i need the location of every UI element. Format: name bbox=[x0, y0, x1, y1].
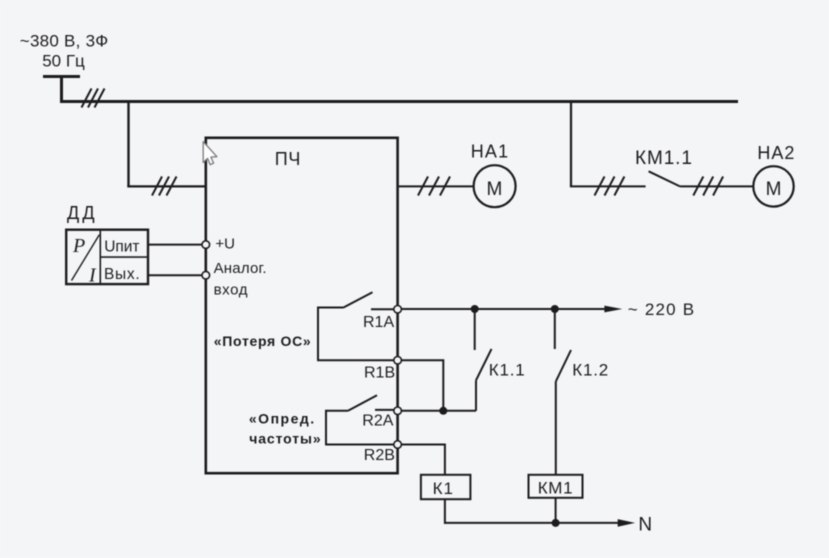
terminal circle Аналог. вход bbox=[202, 271, 210, 279]
svg-text:М: М bbox=[766, 179, 782, 200]
svg-text:К1: К1 bbox=[433, 479, 454, 498]
relay contact R2 bottom wire bbox=[325, 444, 394, 446]
svg-text:вход: вход bbox=[214, 282, 248, 299]
wire branch down to ПЧ bbox=[127, 100, 129, 186]
wire N line bbox=[444, 522, 619, 524]
motor HA2 circle bbox=[753, 166, 793, 206]
ДД horizontal divider bbox=[100, 256, 148, 258]
contact К1.1 bottom wire bbox=[475, 380, 477, 411]
contact К1.2 bottom wire bbox=[555, 382, 557, 476]
3-phase slashes HA1 bbox=[418, 177, 450, 196]
wire ДД Uпит to +U bbox=[148, 244, 202, 246]
relay contact R1 top wire bbox=[317, 307, 343, 309]
contact К1.2 blade bbox=[556, 350, 571, 382]
wire R2B to К1 coil bbox=[401, 445, 445, 476]
svg-text:I: I bbox=[88, 265, 97, 287]
svg-text:КМ1.1: КМ1.1 bbox=[635, 148, 693, 169]
junction dot 220V/К1.1 bbox=[471, 305, 479, 313]
coil К1 box bbox=[421, 475, 471, 499]
wire R1B to junction bbox=[401, 360, 443, 411]
svg-text:50 Гц: 50 Гц bbox=[42, 52, 85, 71]
svg-text:N: N bbox=[638, 514, 652, 535]
wire main bus bbox=[60, 100, 738, 103]
wire R2A to К1.1 bbox=[401, 410, 476, 412]
relay contact R2 fixed wire bbox=[375, 409, 394, 411]
supply terminal bar bbox=[43, 75, 80, 78]
3-phase slashes КМ1.1 left bbox=[595, 177, 625, 196]
svg-text:ПЧ: ПЧ bbox=[275, 149, 301, 169]
ДД diagonal bbox=[72, 235, 100, 281]
svg-text:М: М bbox=[487, 179, 503, 200]
svg-text:К1.2: К1.2 bbox=[572, 361, 609, 380]
terminal circle R2B bbox=[394, 441, 402, 449]
svg-text:~ 220 В: ~ 220 В bbox=[628, 300, 695, 319]
coil КМ1 box bbox=[529, 475, 583, 498]
junction dot 220V/К1.2 bbox=[551, 305, 559, 313]
svg-text:R2A: R2A bbox=[362, 413, 393, 430]
junction dot R1B/R2A bbox=[439, 407, 447, 415]
contact К1.2 top wire bbox=[554, 309, 556, 349]
svg-text:P: P bbox=[72, 235, 85, 257]
svg-text:«Потеря ОС»: «Потеря ОС» bbox=[214, 333, 312, 349]
wire 220V line bbox=[401, 308, 605, 310]
wire supply drop bbox=[60, 77, 63, 104]
svg-text:Вых.: Вых. bbox=[104, 266, 140, 283]
sensor ДД box bbox=[66, 230, 148, 284]
ДД vertical divider bbox=[99, 230, 101, 284]
svg-text:НА2: НА2 bbox=[757, 143, 795, 163]
relay contact R2 blade bbox=[348, 395, 377, 411]
wire КМ1.1 right bbox=[680, 185, 754, 187]
relay contact R1 left vertical bbox=[317, 307, 319, 361]
relay contact R2 left vertical bbox=[325, 410, 327, 445]
svg-text:R2B: R2B bbox=[364, 447, 395, 464]
3-phase slashes on bus bbox=[82, 89, 105, 108]
3-phase slashes КМ1.1 right bbox=[693, 177, 723, 196]
svg-text:R1B: R1B bbox=[364, 365, 395, 382]
terminal circle +U bbox=[202, 241, 210, 249]
svg-text:НА1: НА1 bbox=[471, 142, 510, 162]
wire bus drop to КМ1.1 bbox=[570, 100, 572, 186]
arrow 220V bbox=[604, 306, 622, 313]
junction dot N/КМ1 bbox=[552, 519, 560, 527]
relay contact R1 fixed wire bbox=[371, 308, 394, 310]
relay contact R2 top wire bbox=[325, 410, 348, 412]
contact К1.1 top wire bbox=[474, 309, 476, 350]
frequency converter ПЧ box bbox=[206, 138, 398, 473]
wire К1 to N line bbox=[444, 499, 446, 524]
contact КМ1.1 blade bbox=[649, 171, 680, 186]
terminal circle R1B bbox=[394, 357, 402, 365]
svg-text:К1.1: К1.1 bbox=[489, 361, 526, 380]
svg-text:частоты»: частоты» bbox=[249, 430, 321, 446]
mouse cursor bbox=[203, 142, 217, 165]
arrow N bbox=[618, 519, 635, 527]
wire КМ1 to N line bbox=[555, 498, 557, 523]
contact К1.1 blade bbox=[476, 349, 492, 380]
svg-text:~380 В, 3Ф: ~380 В, 3Ф bbox=[20, 32, 109, 51]
svg-text:R1A: R1A bbox=[363, 314, 394, 331]
motor HA1 circle bbox=[474, 165, 516, 207]
svg-text:ДД: ДД bbox=[67, 203, 98, 223]
terminal circle R1A bbox=[394, 306, 402, 314]
wire ПЧ to HA1 bbox=[399, 185, 474, 187]
3-phase slashes on ПЧ branch bbox=[152, 177, 177, 196]
svg-text:КМ1: КМ1 bbox=[538, 479, 574, 498]
svg-text:+U: +U bbox=[215, 236, 235, 253]
svg-text:Аналог.: Аналог. bbox=[214, 260, 267, 277]
terminal circle R2A bbox=[394, 407, 402, 415]
relay contact R1 bottom wire bbox=[317, 359, 394, 361]
wire ДД Вых to Аналог. вход bbox=[148, 274, 202, 276]
wire branch horizontal to ПЧ bbox=[127, 185, 205, 187]
svg-text:Uпит: Uпит bbox=[104, 238, 139, 255]
wire КМ1.1 left bbox=[570, 185, 646, 187]
svg-text:«Опред.: «Опред. bbox=[249, 411, 316, 427]
relay contact R1 blade bbox=[344, 292, 373, 307]
